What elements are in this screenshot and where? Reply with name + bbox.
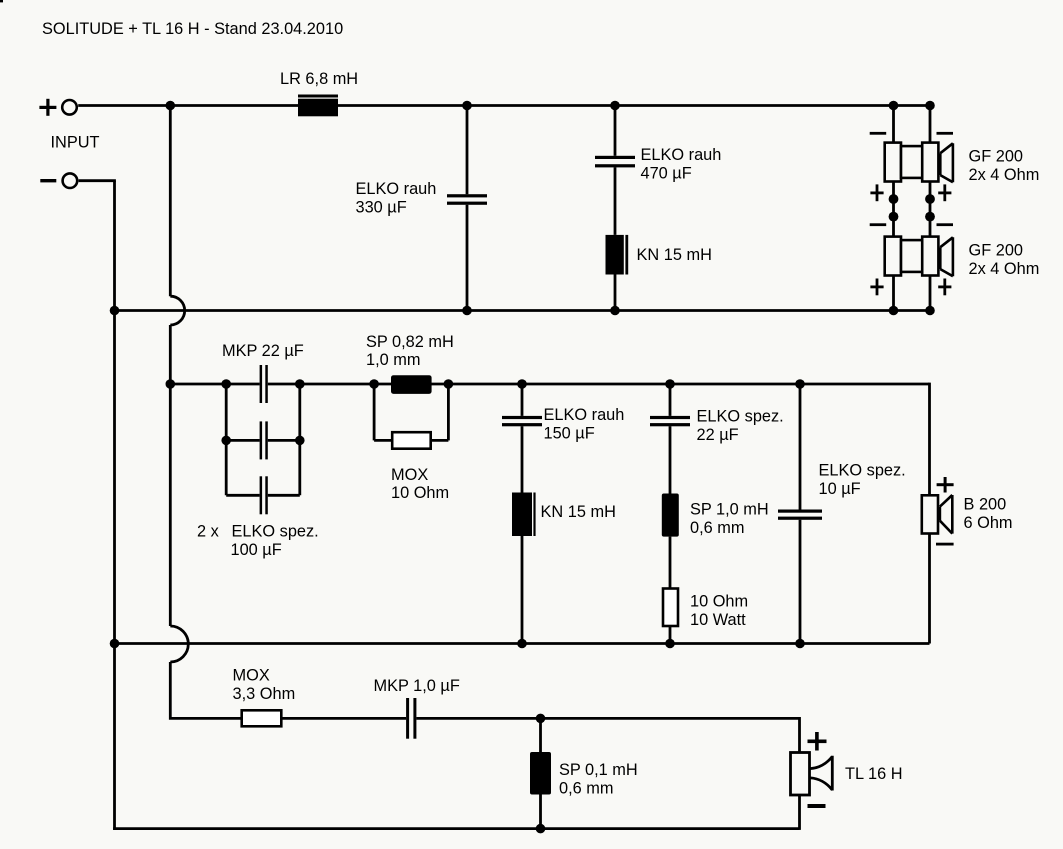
wire 330uF branch lower [466,205,469,311]
wire MOX parallel bottom right [431,439,449,442]
wire 470uF branch upper [614,106,617,156]
wire plus vertical to midrange node [169,325,172,626]
wire SP10 branch bottom [669,626,672,644]
svg-text:B 200: B 200 [964,496,1007,514]
wire plus vertical to tweeter branch [169,662,242,720]
wire tweeter rail middle [281,717,406,720]
wire between 470uF and KN 15 mH [614,167,617,235]
wire cap bank bottom branch left [226,494,259,497]
svg-text:10 Ohm: 10 Ohm [690,593,748,611]
svg-text:INPUT: INPUT [51,134,100,152]
wire SP10 branch middle [669,426,672,493]
plus label B200 [937,477,954,493]
svg-text:1,0 mm: 1,0 mm [366,351,421,369]
junction SP082 right [444,379,454,389]
wire speaker series link right [929,182,932,237]
wire top rail [78,104,930,107]
junction bottom rail at KN [610,306,620,316]
svg-text:2x 4 Ohm: 2x 4 Ohm [969,166,1040,184]
inductor KN 15 mH woofer core line [625,235,628,275]
wire KN mid branch upper [521,384,524,416]
inductor SP 0,82 mH [391,375,432,394]
junction cap bank right top [295,379,305,389]
svg-text:SP 1,0 mH: SP 1,0 mH [690,501,769,519]
svg-text:KN 15 mH: KN 15 mH [541,503,616,521]
minus label speaker2 left [870,223,887,226]
wire minus lead horizontal [79,179,116,182]
svg-text:ELKO spez.: ELKO spez. [819,462,906,480]
wire hop over top-section bottom rail [170,296,184,325]
wire speaker right line upper [929,106,932,143]
wire B200 lower [928,534,931,644]
svg-text:0,6 mm: 0,6 mm [559,780,614,798]
minus label speaker1 left [870,132,887,135]
junction series right upper [925,194,935,204]
svg-text:MOX: MOX [233,667,270,685]
wire tweeter rail right [416,717,799,720]
svg-text:100 µF: 100 µF [231,541,282,559]
wire minus rail vertical [113,181,116,830]
wire KN mid branch lower [521,536,524,644]
junction cap bank left mid [221,436,231,446]
wire MOX parallel bottom left [374,439,392,442]
speaker GF 200 #1 [885,143,953,183]
svg-text:2x 4 Ohm: 2x 4 Ohm [969,260,1040,278]
junction midrange rail ELKO10 branch [795,379,805,389]
junction midrange bottom rail ELKO10 [795,639,805,649]
junction series left upper [889,194,899,204]
svg-text:ELKO rauh: ELKO rauh [356,180,437,198]
junction series right lower [925,212,935,222]
svg-text:3,3 Ohm: 3,3 Ohm [233,685,296,703]
svg-text:TL 16 H: TL 16 H [845,765,903,783]
input terminal - circle [63,173,78,188]
minus label B200 [936,543,954,546]
svg-text:ELKO spez.: ELKO spez. [232,523,319,541]
resistor MOX 3,3 Ohm [242,710,282,726]
plus label speaker1 right [938,184,951,201]
junction tweeter bottom rail SP01 [536,824,546,834]
svg-text:ELKO spez.: ELKO spez. [697,408,784,426]
svg-text:SP 0,1 mH: SP 0,1 mH [559,761,638,779]
svg-text:LR 6,8 mH: LR 6,8 mH [280,70,358,88]
speaker TL 16 H [791,753,833,796]
speaker GF 200 #2 [885,237,953,277]
minus label TL16H [808,804,826,808]
inductor LR 6,8 mH core bar [298,95,338,98]
svg-text:MOX: MOX [391,466,428,484]
input terminal plus sign [39,99,56,116]
svg-text:KN 15 mH: KN 15 mH [637,246,712,264]
capacitor MKP 22 uF plates [260,365,268,403]
wire 330uF branch upper [466,106,469,195]
svg-text:150 µF: 150 µF [544,425,595,443]
junction top rail at plus vertical [166,101,176,111]
svg-text:22 µF: 22 µF [697,426,739,444]
minus label speaker1 right [937,132,954,135]
inductor SP 1,0 mH [662,494,679,537]
svg-text:10 Ohm: 10 Ohm [391,484,449,502]
junction top rail speaker right [925,101,935,111]
wire plus distribution vertical upper [169,106,172,297]
junction bottom rail speaker right [925,306,935,316]
wire speaker left line upper [892,106,895,143]
junction top rail at 470uF branch [610,101,620,111]
junction bottom rail at minus rail [110,306,120,316]
wire top-section bottom rail [115,309,931,312]
junction midrange bottom rail KN [517,639,527,649]
svg-text:ELKO rauh: ELKO rauh [544,406,625,424]
wire MOX parallel right vertical [447,384,450,440]
wire midrange rail left [170,383,259,386]
junction top rail at 330uF branch [462,101,472,111]
wire tweeter bottom rail [113,827,799,830]
junction midrange rail KN branch [517,379,527,389]
wire cap bank middle branch right [268,439,300,442]
input terminal + circle [62,100,77,115]
wire SP01 branch upper [539,718,542,752]
junction midrange rail SP10 branch [665,379,675,389]
inductor KN 15 mH midrange core line [533,493,535,537]
svg-text:ELKO rauh: ELKO rauh [641,146,722,164]
svg-text:MKP 1,0 µF: MKP 1,0 µF [374,677,460,695]
wire tweeter rail corner down [798,717,801,753]
wire midrange rail corner down to B200 [928,383,931,496]
capacitor ELKO spez 100 uF #1 [260,421,268,459]
svg-text:0,6 mm: 0,6 mm [690,519,745,537]
wire below KN 15 mH [614,275,617,311]
plus label speaker1 left [870,184,883,201]
wire cap bank bottom branch right [268,494,300,497]
svg-text:SOLITUDE + TL 16 H - Stand 23.: SOLITUDE + TL 16 H - Stand 23.04.2010 [42,20,343,38]
capacitor ELKO rauh 470 uF [595,156,635,168]
resistor 10 Ohm 10 Watt [663,589,678,627]
resistor MOX 10 Ohm [392,432,431,449]
wire speaker left line lower [892,276,895,311]
plus label speaker2 left [870,279,883,296]
junction top rail speaker left [889,101,899,111]
plus label speaker2 right [938,279,951,296]
junction bottom rail speaker left [889,306,899,316]
capacitor ELKO spez 22 uF [650,416,690,426]
capacitor MKP 1,0 uF [406,698,416,739]
svg-text:MKP 22 µF: MKP 22 µF [222,342,304,360]
wire midrange rail right [268,383,930,386]
junction tweeter rail SP01 [536,714,546,724]
junction SP082 left [369,379,379,389]
svg-text:10 Watt: 10 Watt [690,611,746,629]
capacitor ELKO rauh 330 uF [447,194,487,205]
wire SP01 branch lower [539,795,542,829]
inductor KN 15 mH woofer body [606,235,624,275]
wire MOX parallel left vertical [373,384,376,440]
wire cap bank left vertical [225,384,228,495]
wire speaker right line lower [929,276,932,311]
wire ELKO10 branch upper [799,384,802,510]
junction series left lower [889,212,899,222]
svg-text:6 Ohm: 6 Ohm [964,514,1013,532]
junction midrange feed [166,379,176,389]
input terminal minus sign [40,179,56,182]
capacitor ELKO spez 100 uF #2 [260,476,268,514]
wire SP10 branch upper [669,384,672,416]
junction cap bank right mid [295,436,305,446]
svg-text:SP 0,82 mH: SP 0,82 mH [366,333,454,351]
junction cap bank left top [221,379,231,389]
minus label speaker2 right [937,223,954,226]
wire KN mid branch middle [521,426,524,492]
svg-text:10 µF: 10 µF [819,480,861,498]
svg-text:470 µF: 470 µF [641,165,692,183]
wire hop over midrange bottom rail [170,626,188,662]
wire SP10 branch lower [669,537,672,589]
wire ELKO10 branch lower [799,520,802,644]
inductor SP 0,1 mH [530,752,551,795]
capacitor ELKO rauh 150 uF [502,416,542,426]
wire speaker series link left [892,182,895,237]
wire TL16H lower [798,795,801,830]
svg-text:GF 200: GF 200 [969,148,1024,166]
wire cap bank middle branch left [226,439,259,442]
svg-text:330 µF: 330 µF [356,199,407,217]
junction midrange bottom rail at minus rail [110,639,120,649]
inductor KN 15 mH midrange body [512,493,532,537]
wire midrange bottom rail [113,642,929,645]
capacitor ELKO spez 10 uF [778,510,822,520]
wire cap bank right vertical [298,384,301,495]
svg-text:2 x: 2 x [197,523,219,541]
junction midrange bottom rail SP10 [665,639,675,649]
inductor LR 6,8 mH body [298,99,338,117]
svg-text:GF 200: GF 200 [969,242,1024,260]
speaker B 200 [922,495,953,534]
corner mark [0,0,3,2]
plus label TL16H [808,732,827,751]
junction bottom rail at 330uF [462,306,472,316]
